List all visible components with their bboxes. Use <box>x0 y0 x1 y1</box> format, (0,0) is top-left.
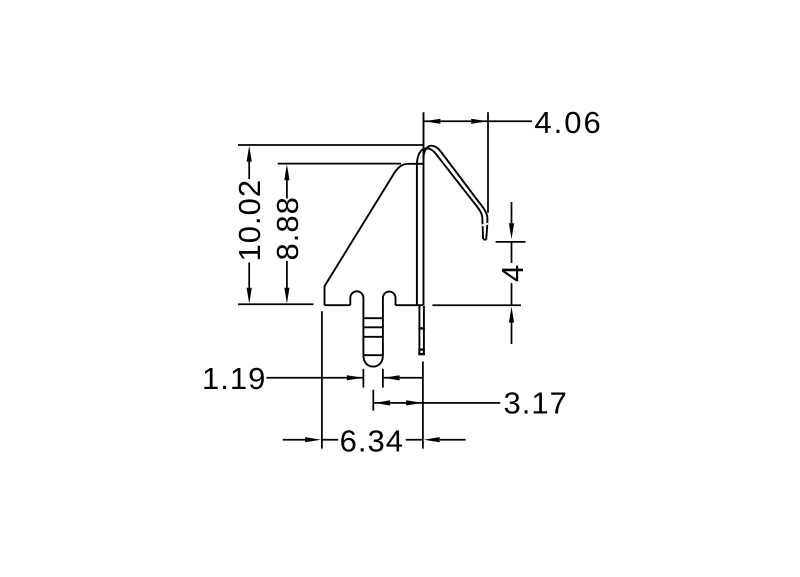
dimension 1.19 right tick extension <box>382 369 384 388</box>
dimension 8.88 extension line <box>278 163 401 165</box>
arrowhead 4.06 right <box>471 119 487 124</box>
part right wall inner edge <box>416 164 418 305</box>
dimension 4.06 right extension line <box>487 112 489 212</box>
dimension 10.02 line lower segment <box>248 263 250 289</box>
dimension 1.19 right line <box>384 377 423 379</box>
dimension 4 line lower shaft <box>511 323 513 345</box>
arrowhead 3.17 right <box>406 400 422 405</box>
arrowhead 1.19 left-pointing <box>384 375 400 380</box>
prong cap top line <box>363 354 383 356</box>
dimension 6.34 left extension line <box>321 311 323 448</box>
dimension 4 line upper shaft <box>511 202 513 223</box>
pin left edge <box>418 306 420 354</box>
arrowhead 1.19 right-pointing <box>347 375 363 380</box>
prong crimp rib 1 <box>363 317 383 319</box>
dimension 3.17 center tick extension <box>372 390 374 411</box>
arrowhead 4.06 left <box>424 119 440 124</box>
spring tip end face <box>483 238 486 241</box>
dimension 1.19 left tick extension <box>362 369 364 388</box>
dimension 4 line lower middle segment <box>511 283 513 305</box>
prong crimp rib 3 <box>363 336 383 338</box>
prong round bottom cap <box>363 355 383 366</box>
part right wall outer edge + 4.06 left extension line <box>423 112 425 305</box>
arrowhead 10.02 down <box>247 288 252 304</box>
spring bend inner curve <box>417 148 483 239</box>
dimension 6.34 right stub <box>406 439 423 441</box>
svg-text:3.17: 3.17 <box>504 386 568 421</box>
slot 2 with round cap and prong right edge <box>383 292 396 356</box>
dimension 6.34 right extension line <box>422 362 424 449</box>
pin crossbar lower <box>418 349 425 351</box>
dimension 10.02/8.88 bottom extension line <box>238 303 314 305</box>
dimension 4 lower extension line <box>432 304 521 306</box>
pin bottom end <box>418 353 425 355</box>
arrowhead 8.88 down <box>284 288 289 304</box>
plate bottom edge left segment <box>325 304 351 306</box>
spring tip break line (white) <box>482 224 489 226</box>
spring bend outer curve <box>424 146 488 240</box>
arrowhead 6.34 right outside <box>424 437 440 442</box>
dimension 10.02 top extension line <box>238 144 424 146</box>
arrowhead 3.17 left <box>374 400 390 405</box>
pin right edge <box>423 306 425 354</box>
svg-text:4: 4 <box>495 264 530 282</box>
svg-text:6.34: 6.34 <box>340 424 404 459</box>
dimension 4 upper tick extension <box>496 241 526 243</box>
dimension 4 line middle segment <box>511 242 513 263</box>
arrowhead 6.34 left outside <box>305 437 321 442</box>
dimension 8.88 line lower segment <box>286 261 288 289</box>
prong crimp rib 2 <box>363 326 383 328</box>
svg-text:1.19: 1.19 <box>202 361 266 396</box>
arrowhead 10.02 up <box>247 146 252 162</box>
dimension 4.06 line <box>424 120 532 122</box>
plate top edge, fillet and hypotenuse <box>325 164 423 305</box>
dimension 3.17 line <box>373 402 500 404</box>
arrowhead 8.88 up <box>284 164 289 180</box>
arrowhead 4 down <box>509 223 514 239</box>
dimension 6.34 left arrow shaft <box>283 439 306 441</box>
dimension 1.19 left line <box>267 377 363 379</box>
dimension 6.34 left stub <box>322 439 338 441</box>
dimension 10.02 line upper segment <box>248 161 250 180</box>
svg-text:8.88: 8.88 <box>270 196 305 260</box>
arrowhead 4 up <box>509 307 514 323</box>
dimension 8.88 line upper segment <box>286 180 288 199</box>
svg-text:4.06: 4.06 <box>534 105 602 140</box>
dimension 6.34 right arrow shaft <box>440 439 466 441</box>
slot 1 with round cap and prong left edge <box>350 291 363 355</box>
pin crossbar upper <box>418 327 425 329</box>
plate bottom edge right segment <box>396 304 423 306</box>
svg-text:10.02: 10.02 <box>232 179 267 262</box>
